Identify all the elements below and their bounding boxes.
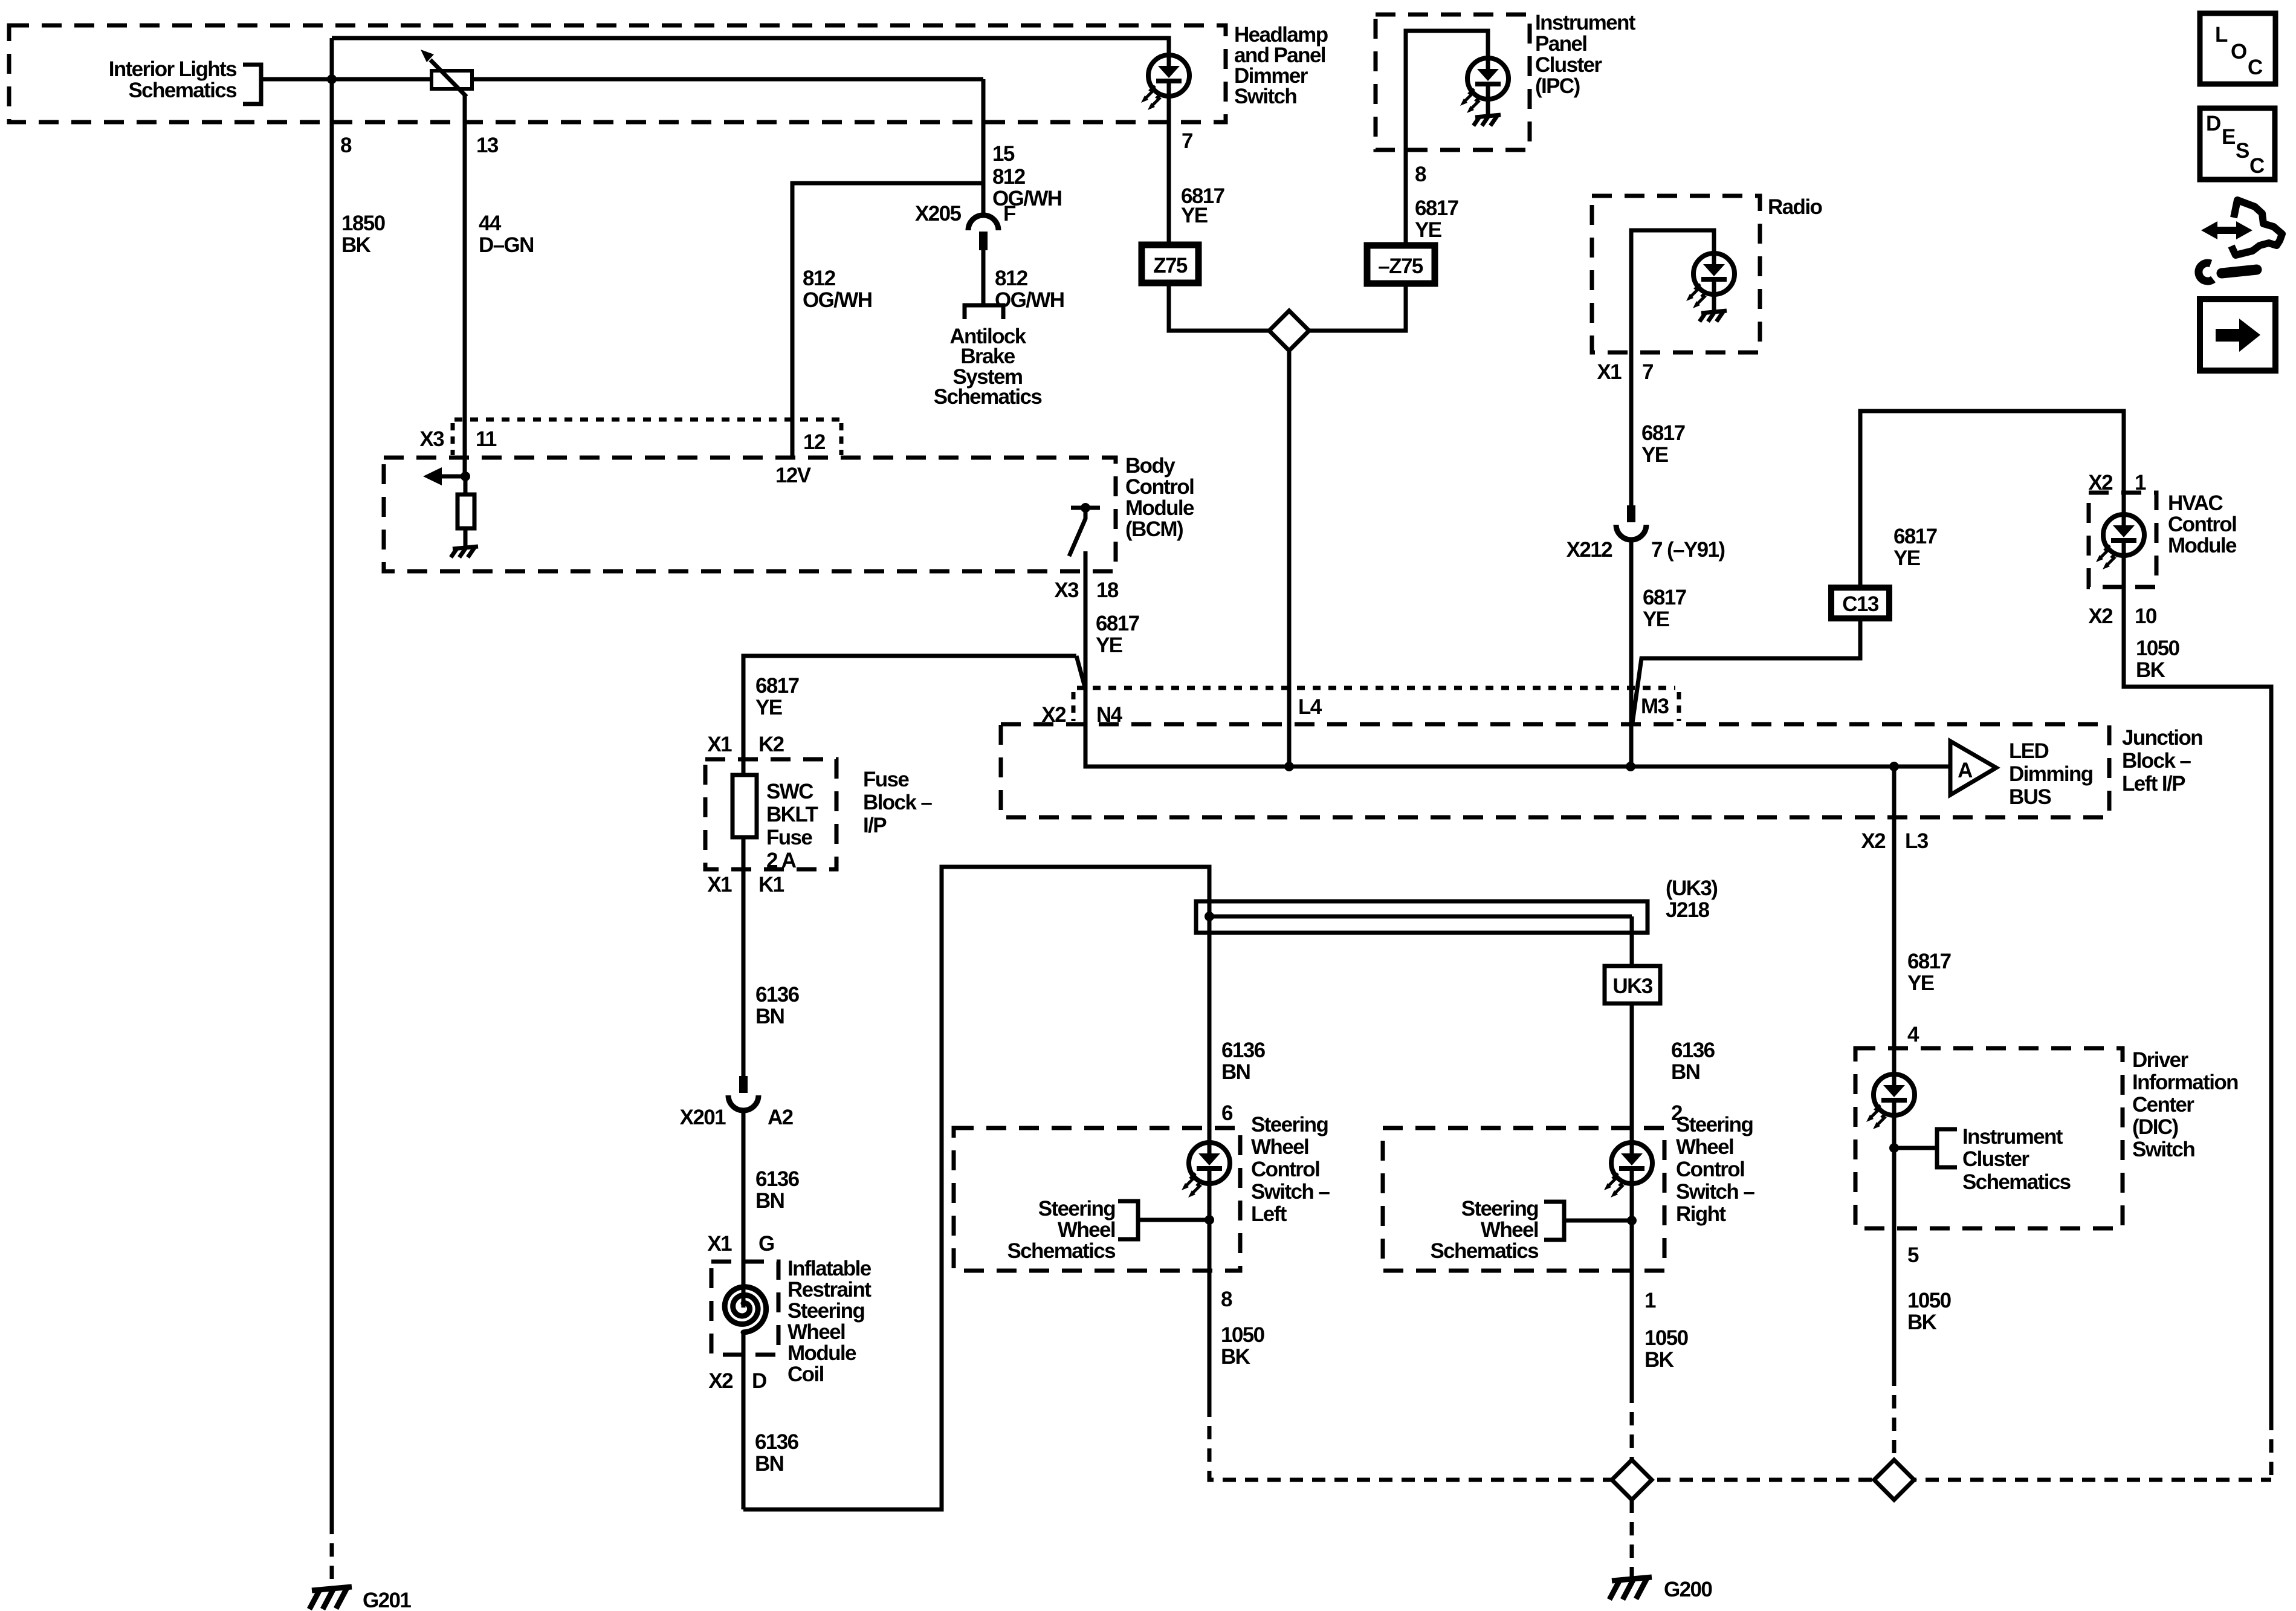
svg-text:LED: LED bbox=[2009, 739, 2049, 763]
wire: vertical 1850 BK feed (x549) bbox=[330, 38, 334, 1521]
svg-text:Driver: Driver bbox=[2132, 1048, 2189, 1072]
dashed box: Driver Information Center (DIC) Switch bbox=[1855, 1048, 2123, 1228]
svg-text:6136: 6136 bbox=[755, 1430, 799, 1454]
node: diamond splice (L4 top) bbox=[1269, 311, 1309, 351]
rheostat: dimmer variable resistor bbox=[432, 71, 472, 89]
svg-text:J218: J218 bbox=[1666, 898, 1710, 922]
svg-text:12: 12 bbox=[803, 430, 826, 454]
svg-text:X3: X3 bbox=[1054, 579, 1079, 602]
svg-text:6817: 6817 bbox=[1096, 612, 1139, 635]
ground G201 bbox=[309, 1587, 352, 1609]
svg-text:(IPC): (IPC) bbox=[1535, 74, 1580, 98]
bracket: antilock brake system tie bbox=[965, 305, 1003, 319]
svg-text:1850: 1850 bbox=[341, 212, 386, 235]
splice Z75 bbox=[1142, 245, 1198, 283]
svg-text:BUS: BUS bbox=[2009, 785, 2051, 809]
node: junction dot (instrument cluster tie) bbox=[1889, 1143, 1899, 1153]
svg-text:BK: BK bbox=[2136, 658, 2165, 682]
svg-text:1050: 1050 bbox=[2136, 637, 2180, 660]
svg-text:Cluster: Cluster bbox=[1535, 53, 1602, 77]
svg-text:Schematics: Schematics bbox=[1962, 1170, 2071, 1194]
svg-text:1050: 1050 bbox=[1907, 1289, 1952, 1312]
node: ground diamond (steering right) bbox=[1612, 1460, 1652, 1500]
bracket: steering wheel schematics (right) bbox=[1564, 1219, 1632, 1223]
svg-text:BN: BN bbox=[1221, 1060, 1250, 1084]
svg-text:Steering: Steering bbox=[1038, 1197, 1115, 1220]
label: Instrument Cluster Schematics bbox=[1962, 1125, 2071, 1194]
svg-text:X205: X205 bbox=[915, 202, 961, 225]
wire: C13 riser top run bbox=[1860, 411, 2124, 588]
wire: left switch pin 8 to ground bus bbox=[1208, 1271, 1212, 1404]
svg-text:Switch: Switch bbox=[2132, 1138, 2194, 1161]
svg-text:2 A: 2 A bbox=[766, 849, 797, 872]
buffer A: LED dimming bus driver bbox=[1950, 741, 1996, 795]
dashed box: Inflatable Restraint Steering Wheel Module Coil bbox=[711, 1262, 778, 1355]
svg-text:Wheel: Wheel bbox=[1676, 1135, 1733, 1159]
dashed box: Steering Wheel Control Switch - Right bbox=[1383, 1128, 1664, 1271]
node: ground diamond (DIC) bbox=[1874, 1460, 1914, 1500]
svg-text:A2: A2 bbox=[768, 1106, 794, 1129]
wire: IPC pin 8 down to -Z75 bbox=[1404, 150, 1408, 245]
svg-text:Instrument: Instrument bbox=[1962, 1125, 2063, 1149]
wire: diamond to G200 bbox=[1630, 1500, 1634, 1577]
fuse: SWC BKLT Fuse 2 A bbox=[732, 775, 757, 837]
label: Steering Wheel Control Switch - Left bbox=[1251, 1113, 1330, 1226]
label: Steering Wheel Schematics (left) bbox=[1007, 1197, 1116, 1263]
svg-text:OG/WH: OG/WH bbox=[803, 288, 872, 312]
wire: pin 7 of dimmer switch down to Z75 bbox=[1167, 96, 1171, 245]
wire into coil (top) bbox=[742, 1262, 746, 1308]
svg-text:Schematics: Schematics bbox=[128, 79, 237, 102]
svg-text:S: S bbox=[2236, 139, 2249, 163]
svg-text:Schematics: Schematics bbox=[1430, 1239, 1539, 1263]
wire: L3 drop to DIC switch bbox=[1892, 767, 1897, 1048]
splice -Z75 bbox=[1367, 245, 1435, 284]
svg-text:Schematics: Schematics bbox=[1007, 1239, 1116, 1263]
svg-text:10: 10 bbox=[2135, 605, 2157, 628]
svg-text:C: C bbox=[2249, 154, 2265, 178]
svg-text:6817: 6817 bbox=[755, 674, 799, 698]
label: HVAC Control Module bbox=[2168, 491, 2237, 557]
svg-text:Interior Lights: Interior Lights bbox=[109, 57, 237, 81]
svg-text:Junction: Junction bbox=[2122, 726, 2202, 750]
icon: service arrows and wrench bbox=[2199, 200, 2282, 281]
splice C13 bbox=[1831, 588, 1889, 618]
svg-text:Left: Left bbox=[1251, 1202, 1287, 1226]
svg-text:X212: X212 bbox=[1567, 538, 1612, 562]
lamp: headlamp dimmer illumination bbox=[1141, 55, 1189, 110]
svg-text:X3: X3 bbox=[419, 427, 444, 451]
svg-text:6136: 6136 bbox=[1671, 1039, 1715, 1062]
wire: rheostat to pin 15 (y131) bbox=[472, 77, 983, 82]
svg-text:8: 8 bbox=[1415, 163, 1426, 186]
label: Interior Lights Schematics bbox=[109, 57, 237, 102]
wire: pin 15 down to X205 bbox=[981, 79, 986, 215]
svg-text:(UK3): (UK3) bbox=[1666, 877, 1717, 900]
svg-text:BKLT: BKLT bbox=[766, 803, 818, 826]
wire: IPC pin 8 internal bbox=[1406, 31, 1488, 150]
svg-text:BN: BN bbox=[1671, 1060, 1699, 1084]
svg-text:Steering: Steering bbox=[1461, 1197, 1538, 1220]
svg-text:C: C bbox=[2248, 56, 2263, 79]
dashed box: Body Control Module (BCM) bbox=[384, 458, 1116, 571]
node: BCM pin 11 junction dot with arrow bbox=[461, 472, 470, 481]
svg-text:YE: YE bbox=[1181, 204, 1208, 227]
coil: inflatable restraint steering wheel module coil bbox=[715, 1279, 772, 1336]
svg-text:YE: YE bbox=[1096, 634, 1122, 657]
svg-text:6136: 6136 bbox=[1221, 1039, 1266, 1062]
icon: LOC box bbox=[2200, 13, 2275, 84]
svg-text:Center: Center bbox=[2132, 1093, 2194, 1117]
svg-text:7: 7 bbox=[1642, 360, 1653, 384]
svg-text:Steering: Steering bbox=[1676, 1113, 1753, 1136]
bracket: interior lights schematics tie bbox=[243, 65, 261, 104]
svg-text:Fuse: Fuse bbox=[766, 826, 812, 849]
svg-text:Wheel: Wheel bbox=[787, 1320, 845, 1344]
lamp: left switch backlight bbox=[1182, 1143, 1230, 1198]
svg-text:BN: BN bbox=[755, 1189, 784, 1213]
svg-text:Steering: Steering bbox=[787, 1299, 864, 1323]
ground: radio internal bbox=[1699, 311, 1727, 322]
svg-text:X1: X1 bbox=[707, 733, 732, 756]
svg-text:Z75: Z75 bbox=[1153, 254, 1188, 277]
svg-text:YE: YE bbox=[1907, 971, 1934, 995]
wire: UK3 down to steering wheel control switch - right bbox=[1630, 1003, 1634, 1143]
svg-text:D: D bbox=[752, 1369, 766, 1393]
wire: HVAC pin 10 ground path 1050 BK bbox=[2124, 556, 2271, 1417]
svg-text:Schematics: Schematics bbox=[934, 385, 1043, 409]
wire: DIC pin 5 to ground bus bbox=[1892, 1228, 1897, 1373]
svg-text:Cluster: Cluster bbox=[1962, 1147, 2029, 1171]
svg-text:8: 8 bbox=[1221, 1288, 1232, 1311]
lamp: radio backlight bbox=[1686, 253, 1735, 308]
wire out of coil (bottom) bbox=[742, 1332, 746, 1509]
wire: pin 13 drop (x769) bbox=[463, 96, 467, 476]
svg-text:YE: YE bbox=[1415, 218, 1441, 242]
svg-text:Module: Module bbox=[787, 1341, 856, 1365]
ground: BCM internal bbox=[451, 546, 478, 557]
svg-text:–Z75: –Z75 bbox=[1378, 254, 1423, 278]
lamp: IPC backlight bbox=[1460, 58, 1509, 113]
svg-text:7: 7 bbox=[1182, 129, 1192, 153]
svg-text:Control: Control bbox=[1251, 1158, 1319, 1181]
svg-text:G: G bbox=[758, 1232, 774, 1256]
node: bus junction dot M3 bbox=[1626, 762, 1635, 771]
svg-text:D: D bbox=[2206, 112, 2220, 135]
svg-text:812: 812 bbox=[803, 267, 836, 290]
node: junction dot at (549,131) bbox=[327, 74, 337, 84]
label: Inflatable Restraint Steering Wheel Module Coil bbox=[787, 1257, 872, 1386]
connector bar J218 (UK3) bbox=[1196, 901, 1648, 933]
svg-text:K2: K2 bbox=[758, 733, 784, 756]
svg-text:F: F bbox=[1003, 202, 1016, 225]
node: junction dot (right schematics tie) bbox=[1630, 1184, 1634, 1271]
connector X205 pin F bbox=[968, 215, 998, 250]
svg-text:X2: X2 bbox=[2088, 605, 2113, 628]
wire: lamp to radio ground bbox=[1712, 294, 1716, 312]
label: Driver Information Center (DIC) Switch bbox=[2132, 1048, 2238, 1161]
node: J218 junction dot bbox=[1205, 912, 1214, 921]
svg-text:D–GN: D–GN bbox=[479, 233, 534, 257]
svg-text:BN: BN bbox=[755, 1452, 783, 1476]
svg-text:6: 6 bbox=[1221, 1101, 1233, 1125]
svg-text:UK3: UK3 bbox=[1612, 974, 1652, 998]
svg-text:G200: G200 bbox=[1664, 1578, 1712, 1601]
svg-text:L4: L4 bbox=[1298, 695, 1322, 719]
svg-text:N4: N4 bbox=[1096, 703, 1123, 727]
svg-text:X1: X1 bbox=[1597, 360, 1622, 384]
wire: coil return 6136 BN loop to J218 bbox=[743, 867, 1209, 1509]
wire: X212 down to junction block pin M3 bbox=[1629, 539, 1634, 767]
dashed box: Radio bbox=[1592, 196, 1760, 352]
svg-text:YE: YE bbox=[1641, 443, 1668, 467]
bracket: steering wheel schematics (left) bbox=[1138, 1218, 1209, 1222]
svg-text:L3: L3 bbox=[1905, 829, 1929, 853]
wire: 6817 YE from bus to SWC BKLT fuse bbox=[743, 656, 1076, 775]
connector X212 pin 7 bbox=[1616, 505, 1646, 540]
wire: J218 dot down to steering wheel control switch - left bbox=[1208, 916, 1212, 1143]
svg-text:BK: BK bbox=[341, 233, 371, 257]
wire: dashed ground bus G200 bbox=[1612, 1478, 2271, 1482]
svg-text:Coil: Coil bbox=[787, 1363, 824, 1386]
svg-text:1: 1 bbox=[1644, 1289, 1656, 1312]
svg-text:X2: X2 bbox=[1041, 703, 1066, 727]
resistor: BCM internal pull bbox=[464, 476, 468, 548]
svg-text:812: 812 bbox=[992, 165, 1026, 189]
svg-text:X1: X1 bbox=[707, 873, 732, 896]
bracket: instrument cluster schematics tie bbox=[1894, 1146, 1937, 1150]
svg-text:O: O bbox=[2231, 40, 2246, 63]
svg-text:Information: Information bbox=[2132, 1071, 2238, 1094]
svg-text:15: 15 bbox=[992, 142, 1015, 166]
wire: Z75 to diamond bbox=[1169, 283, 1269, 331]
label: LED Dimming BUS bbox=[2009, 739, 2093, 809]
wire: -Z75 down to diamond bbox=[1309, 283, 1406, 331]
dashed box: Instrument Panel Cluster (IPC) bbox=[1376, 15, 1530, 150]
svg-text:BK: BK bbox=[1907, 1311, 1937, 1334]
wire: 812 OG/WH branch to BCM pin 12 bbox=[792, 183, 983, 458]
wire: radio backlight internal bbox=[1631, 230, 1714, 352]
svg-text:Module: Module bbox=[1125, 496, 1194, 520]
svg-text:BK: BK bbox=[1644, 1348, 1674, 1372]
svg-text:Fuse: Fuse bbox=[863, 768, 909, 791]
svg-text:1050: 1050 bbox=[1644, 1326, 1689, 1350]
svg-text:C13: C13 bbox=[1842, 592, 1879, 616]
svg-text:Control: Control bbox=[1125, 475, 1194, 499]
connector X2 dotted row (pins N4/M3) bbox=[1077, 686, 1675, 690]
svg-text:812: 812 bbox=[995, 267, 1028, 290]
dashed box: Interior Lights / Headlamp and Panel Dimmer Switch bbox=[9, 25, 1226, 122]
svg-text:6817: 6817 bbox=[1641, 421, 1685, 445]
svg-text:YE: YE bbox=[1643, 608, 1669, 631]
svg-text:7 (–Y91): 7 (–Y91) bbox=[1651, 538, 1724, 562]
svg-text:X2: X2 bbox=[1861, 829, 1886, 853]
svg-text:Inflatable: Inflatable bbox=[787, 1257, 872, 1280]
label: Steering Wheel Control Switch - Right bbox=[1676, 1113, 1754, 1226]
label: Instrument Panel Cluster (IPC) bbox=[1535, 11, 1636, 98]
svg-text:Wheel: Wheel bbox=[1481, 1218, 1538, 1242]
svg-text:SWC: SWC bbox=[766, 780, 813, 803]
dashed box: Steering Wheel Control Switch - Left bbox=[954, 1128, 1240, 1271]
label: Body Control Module (BCM) bbox=[1125, 454, 1194, 541]
svg-text:K1: K1 bbox=[758, 873, 784, 896]
svg-text:1050: 1050 bbox=[1221, 1323, 1265, 1347]
svg-text:6817: 6817 bbox=[1893, 525, 1937, 548]
svg-text:44: 44 bbox=[479, 212, 502, 235]
svg-text:HVAC: HVAC bbox=[2168, 491, 2223, 515]
svg-text:Right: Right bbox=[1676, 1202, 1726, 1226]
svg-text:(DIC): (DIC) bbox=[2132, 1115, 2178, 1139]
lamp: HVAC control module backlight bbox=[2122, 493, 2126, 514]
svg-text:E: E bbox=[2222, 125, 2235, 149]
svg-text:YE: YE bbox=[1893, 546, 1920, 570]
lamp: right switch backlight bbox=[1604, 1143, 1652, 1198]
svg-text:Switch –: Switch – bbox=[1676, 1180, 1754, 1204]
svg-text:Radio: Radio bbox=[1768, 195, 1822, 219]
svg-text:6136: 6136 bbox=[755, 1167, 800, 1191]
svg-text:Switch: Switch bbox=[1234, 85, 1296, 108]
svg-text:BN: BN bbox=[755, 1005, 784, 1028]
svg-text:Control: Control bbox=[2168, 513, 2236, 536]
svg-text:Steering: Steering bbox=[1251, 1113, 1328, 1136]
svg-text:BK: BK bbox=[1221, 1345, 1250, 1369]
svg-text:6136: 6136 bbox=[755, 983, 800, 1006]
node: bus junction dot L4 bbox=[1284, 762, 1294, 771]
wire: right switch pin 1 to ground diamond bbox=[1630, 1271, 1634, 1390]
svg-text:G201: G201 bbox=[363, 1589, 411, 1611]
svg-text:18: 18 bbox=[1096, 579, 1119, 602]
ground: IPC internal bbox=[1473, 115, 1501, 126]
svg-text:6817: 6817 bbox=[1907, 950, 1951, 973]
wire: X205 to antilock bracket bbox=[981, 250, 986, 305]
svg-text:6817: 6817 bbox=[1415, 196, 1458, 220]
svg-text:Control: Control bbox=[1676, 1158, 1744, 1181]
svg-text:X1: X1 bbox=[707, 1232, 732, 1256]
svg-text:Switch –: Switch – bbox=[1251, 1180, 1330, 1204]
connector X3 dotted row (pins 11/12) bbox=[454, 418, 843, 422]
dashed box: Fuse Block - I/P bbox=[705, 759, 836, 869]
svg-text:13: 13 bbox=[476, 134, 499, 157]
dashed box: HVAC Control Module bbox=[2089, 493, 2156, 587]
rheostat arrow bbox=[430, 60, 467, 97]
ground G200 bbox=[1609, 1577, 1652, 1600]
svg-text:Wheel: Wheel bbox=[1251, 1135, 1308, 1159]
wire: slant into N4 bbox=[1076, 656, 1085, 689]
wire: fuse K1 down to X201 bbox=[742, 837, 746, 1076]
svg-text:12V: 12V bbox=[775, 464, 812, 487]
node: bus junction dot L3 bbox=[1889, 762, 1899, 771]
svg-text:4: 4 bbox=[1907, 1023, 1919, 1046]
svg-text:5: 5 bbox=[1907, 1243, 1919, 1267]
svg-text:Block –: Block – bbox=[863, 791, 932, 814]
svg-text:(BCM): (BCM) bbox=[1125, 517, 1183, 541]
wire: dimmer feed top (to headlamp lamp) bbox=[332, 38, 1169, 56]
svg-text:M3: M3 bbox=[1641, 695, 1669, 718]
wire: radio pin 7 down to X212 bbox=[1629, 352, 1634, 505]
wire: J218 to UK3 fuse bbox=[1630, 916, 1634, 966]
svg-text:I/P: I/P bbox=[863, 814, 887, 837]
dashed box: Junction Block - Left I/P bbox=[1001, 724, 2109, 817]
svg-text:Restraint: Restraint bbox=[787, 1278, 872, 1301]
svg-text:Block –: Block – bbox=[2122, 749, 2191, 773]
connector X201 pin A2 bbox=[728, 1076, 758, 1110]
wire: lamp to IPC ground bbox=[1486, 99, 1490, 116]
wire: interior lights to rheostat (y131) bbox=[261, 77, 432, 82]
wire: L4 drop to LED dimming bus bbox=[1287, 351, 1292, 767]
svg-text:Module: Module bbox=[2168, 534, 2237, 557]
svg-text:Panel: Panel bbox=[1535, 32, 1586, 56]
svg-text:X2: X2 bbox=[708, 1369, 733, 1393]
label: Junction Block - Left I/P bbox=[2122, 726, 2202, 796]
icon: next page arrow box bbox=[2200, 299, 2275, 371]
fuse UK3 bbox=[1605, 966, 1660, 1003]
svg-text:Dimming: Dimming bbox=[2009, 762, 2093, 786]
label: Fuse Block - I/P bbox=[863, 768, 932, 837]
label: Steering Wheel Schematics (right) bbox=[1430, 1197, 1539, 1263]
wire: X201 to coil X1 pin G bbox=[742, 1109, 746, 1262]
svg-text:Left I/P: Left I/P bbox=[2122, 772, 2185, 796]
svg-text:YE: YE bbox=[755, 696, 782, 719]
label: Antilock Brake System Schematics bbox=[934, 325, 1043, 409]
svg-text:L: L bbox=[2215, 23, 2228, 47]
wire: C13 to M3 (with slant) bbox=[1632, 618, 1860, 723]
lamp: DIC switch backlight bbox=[1892, 1048, 1897, 1074]
wire: BCM X3 pin 18 down to junction block N4, then bus bbox=[1085, 551, 1950, 767]
svg-text:Body: Body bbox=[1125, 454, 1175, 478]
svg-text:Wheel: Wheel bbox=[1058, 1218, 1115, 1242]
icon: DESC box bbox=[2200, 108, 2275, 180]
svg-text:6817: 6817 bbox=[1643, 586, 1686, 609]
node: junction dot (left schematics tie) bbox=[1208, 1184, 1212, 1271]
svg-text:A: A bbox=[1958, 759, 1973, 782]
svg-text:Instrument: Instrument bbox=[1535, 11, 1636, 34]
svg-text:11: 11 bbox=[476, 427, 497, 451]
svg-text:X201: X201 bbox=[680, 1106, 726, 1129]
svg-text:8: 8 bbox=[340, 134, 352, 157]
label: Headlamp and Panel Dimmer Switch bbox=[1234, 23, 1328, 108]
switch: BCM dimming output driver bbox=[1069, 503, 1100, 556]
